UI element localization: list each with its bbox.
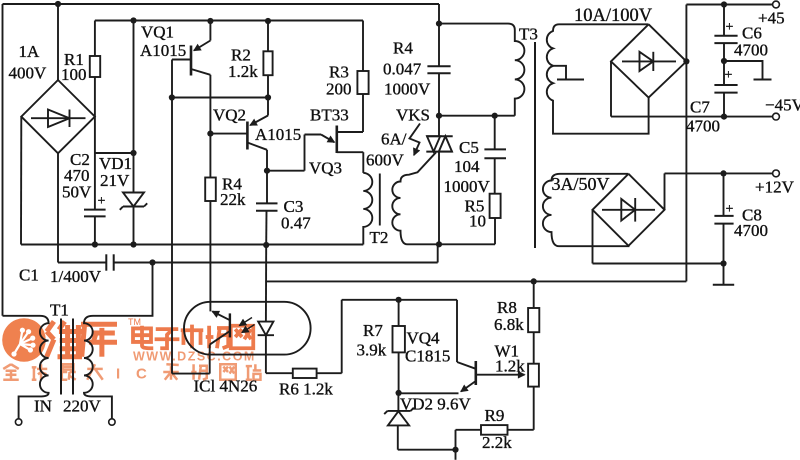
svg-text:VD2 9.6V: VD2 9.6V bbox=[400, 395, 472, 414]
svg-text:1000V: 1000V bbox=[384, 80, 431, 99]
svg-text:T2: T2 bbox=[370, 228, 389, 247]
svg-text:0.047: 0.047 bbox=[383, 60, 422, 79]
svg-text:TM: TM bbox=[128, 317, 141, 327]
svg-text:6.8k: 6.8k bbox=[494, 315, 524, 334]
svg-text:50V: 50V bbox=[62, 183, 92, 202]
svg-text:VQ1: VQ1 bbox=[141, 23, 174, 42]
svg-text:C: C bbox=[136, 366, 147, 383]
svg-text:1/400V: 1/400V bbox=[50, 267, 102, 286]
svg-text:+: + bbox=[726, 20, 734, 35]
svg-text:R7: R7 bbox=[363, 321, 383, 340]
svg-text:1.2k: 1.2k bbox=[495, 357, 525, 376]
svg-text:+45: +45 bbox=[758, 9, 785, 28]
svg-text:ICl 4N26: ICl 4N26 bbox=[194, 377, 258, 396]
svg-text:−45V: −45V bbox=[765, 96, 800, 115]
svg-text:10A/100V: 10A/100V bbox=[574, 6, 653, 26]
svg-text:IN: IN bbox=[34, 397, 52, 416]
svg-text:A1015: A1015 bbox=[140, 41, 186, 60]
svg-text:C1: C1 bbox=[19, 266, 39, 285]
svg-text:+: + bbox=[725, 68, 733, 83]
svg-text:100: 100 bbox=[61, 65, 87, 84]
svg-text:+: + bbox=[98, 194, 106, 209]
svg-text:A1015: A1015 bbox=[255, 125, 301, 144]
svg-text:VQ2: VQ2 bbox=[213, 106, 246, 125]
svg-text:+: + bbox=[726, 202, 734, 217]
svg-text:6A/: 6A/ bbox=[381, 130, 407, 149]
svg-text:VQ3: VQ3 bbox=[309, 159, 342, 178]
svg-text:+12V: +12V bbox=[755, 178, 795, 197]
svg-text:T3: T3 bbox=[519, 25, 538, 44]
svg-text:3.9k: 3.9k bbox=[357, 341, 387, 360]
svg-text:104: 104 bbox=[454, 157, 480, 176]
svg-text:R4: R4 bbox=[393, 39, 413, 58]
svg-text:R9: R9 bbox=[485, 406, 505, 425]
svg-text:22k: 22k bbox=[220, 190, 246, 209]
svg-text:C5: C5 bbox=[459, 138, 479, 157]
svg-text:600V: 600V bbox=[366, 151, 405, 170]
svg-text:R6 1.2k: R6 1.2k bbox=[279, 380, 333, 399]
svg-text:T1: T1 bbox=[50, 301, 69, 320]
svg-text:VKS: VKS bbox=[396, 106, 430, 125]
svg-text:4700: 4700 bbox=[734, 221, 768, 240]
svg-text:I: I bbox=[116, 366, 120, 383]
svg-text:3A/50V: 3A/50V bbox=[552, 174, 610, 194]
svg-text:21V: 21V bbox=[100, 171, 130, 190]
svg-text:220V: 220V bbox=[63, 397, 102, 416]
svg-text:C7: C7 bbox=[690, 98, 710, 117]
svg-text:BT33: BT33 bbox=[310, 106, 349, 125]
svg-text:400V: 400V bbox=[9, 64, 48, 83]
svg-text:WWW.DZSC.COM: WWW.DZSC.COM bbox=[133, 350, 256, 364]
svg-text:2.2k: 2.2k bbox=[482, 433, 512, 452]
svg-text:1.2k: 1.2k bbox=[228, 62, 258, 81]
svg-text:VQ4: VQ4 bbox=[407, 329, 441, 348]
svg-text:1000V: 1000V bbox=[444, 177, 491, 196]
svg-text:200: 200 bbox=[326, 80, 352, 99]
svg-text:C1815: C1815 bbox=[405, 347, 450, 366]
svg-text:0.47: 0.47 bbox=[281, 214, 311, 233]
svg-text:4700: 4700 bbox=[734, 41, 768, 60]
svg-text:1A: 1A bbox=[19, 42, 41, 61]
svg-text:4700: 4700 bbox=[686, 117, 720, 136]
svg-text:10: 10 bbox=[469, 212, 486, 231]
